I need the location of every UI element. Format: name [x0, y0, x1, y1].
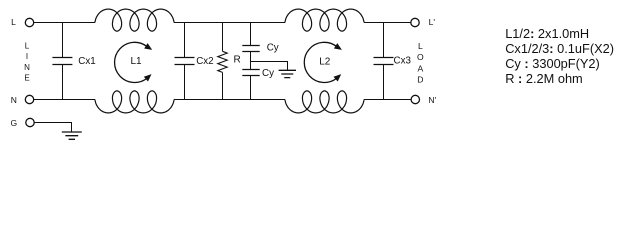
svg-text:R : 2.2M ohm: R : 2.2M ohm	[505, 71, 583, 86]
svg-text:Cx3: Cx3	[394, 56, 412, 67]
capacitor Cy1 lead top	[250, 23, 252, 46]
arrowhead L2 bottom	[334, 74, 342, 81]
svg-text:L: L	[418, 41, 423, 51]
terminal G	[26, 118, 34, 126]
capacitor Cx3 leads	[383, 23, 385, 100]
svg-text:Cx2: Cx2	[196, 56, 213, 67]
svg-text:Cy : 3300pF(Y2): Cy : 3300pF(Y2)	[505, 56, 600, 71]
flux direction arc L2	[304, 42, 336, 82]
arrowhead L2 top	[334, 43, 342, 50]
capacitor Cx2 plates	[175, 58, 195, 65]
svg-text:L2: L2	[319, 56, 331, 67]
wire L1 bottom to L2 bottom	[174, 99, 285, 101]
wire L1 top to L2 top	[174, 22, 285, 24]
terminal N'	[411, 95, 419, 103]
node between Cy capacitors	[250, 52, 252, 70]
label LINE	[24, 41, 30, 82]
inductor L1 bottom winding	[95, 91, 174, 113]
resistor R leads	[222, 23, 224, 100]
svg-text:O: O	[417, 52, 424, 62]
terminal L'	[411, 18, 419, 26]
inductor L2 bottom winding	[285, 91, 364, 113]
ground symbol left	[62, 132, 82, 139]
svg-text:L: L	[11, 17, 16, 27]
capacitor Cx1 leads	[62, 23, 64, 100]
svg-text:L1/2: 2x1.0mH: L1/2: 2x1.0mH	[505, 26, 589, 41]
svg-text:Cx1: Cx1	[78, 56, 95, 67]
svg-text:E: E	[24, 74, 29, 83]
capacitor Cx2 leads	[184, 23, 186, 100]
wire L2 bottom to N'	[364, 99, 411, 101]
wire L to L1 top	[34, 22, 95, 24]
capacitor Cy1 plates	[242, 46, 259, 52]
resistor R zigzag	[218, 51, 227, 72]
arrowhead L1 bottom	[144, 74, 152, 81]
svg-text:L1: L1	[131, 56, 143, 67]
wire G to ground	[34, 123, 71, 132]
terminal L	[25, 18, 33, 26]
capacitor Cx1 plates	[52, 58, 72, 65]
svg-text:N': N'	[428, 95, 436, 105]
flux direction arc L1	[115, 42, 147, 82]
svg-text:L': L'	[429, 17, 436, 27]
wire N to L1 bottom	[34, 99, 95, 101]
capacitor Cx3 plates	[374, 58, 394, 65]
svg-text:G: G	[10, 118, 17, 128]
svg-text:Cy: Cy	[267, 42, 279, 53]
inductor L2 top winding	[285, 9, 364, 31]
svg-text:L: L	[25, 41, 30, 50]
terminal N	[25, 95, 33, 103]
svg-text:N: N	[11, 95, 17, 105]
svg-text:D: D	[417, 75, 423, 85]
svg-text:R: R	[234, 55, 241, 66]
component values note	[505, 26, 614, 86]
capacitor Cy2 lead bottom	[250, 76, 252, 100]
svg-text:I: I	[26, 52, 28, 61]
ground symbol Cy	[279, 70, 296, 77]
svg-text:A: A	[418, 64, 424, 74]
wire L2 top to L'	[364, 22, 411, 24]
inductor L1 top winding	[95, 9, 174, 31]
svg-text:Cy: Cy	[262, 68, 274, 79]
capacitor Cy2 plates	[242, 70, 259, 76]
label LOAD	[417, 41, 424, 84]
arrowhead L1 top	[144, 43, 152, 50]
svg-text:Cx1/2/3: 0.1uF(X2): Cx1/2/3: 0.1uF(X2)	[505, 41, 614, 56]
wire Cy midpoint to ground	[251, 62, 288, 71]
svg-text:N: N	[24, 63, 30, 72]
